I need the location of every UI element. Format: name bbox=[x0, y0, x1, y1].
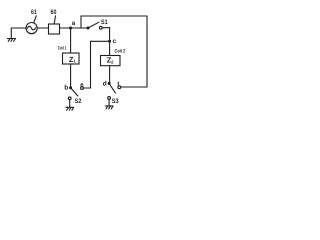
switch S2 arm bbox=[71, 88, 78, 96]
switch S3 ground contact bbox=[108, 97, 111, 100]
wire top edge left bbox=[81, 15, 147, 17]
svg-text:S3: S3 bbox=[112, 98, 119, 105]
switch S3 arm bbox=[109, 83, 115, 93]
wire node a down to coil 1 bbox=[70, 28, 72, 53]
svg-text:Coil 1: Coil 1 bbox=[58, 45, 67, 51]
wire S3 contact to ground bbox=[108, 99, 110, 105]
ground (below S3) bbox=[105, 106, 113, 109]
wire e to riser corner bbox=[83, 87, 90, 89]
leader line for label 61 bbox=[34, 16, 37, 23]
wire corner down to node c bbox=[109, 28, 111, 42]
svg-text:Coil 2: Coil 2 bbox=[115, 49, 126, 55]
svg-text:f: f bbox=[117, 81, 120, 88]
svg-text:d: d bbox=[103, 80, 107, 87]
svg-text:60: 60 bbox=[51, 9, 57, 16]
svg-text:a: a bbox=[72, 20, 76, 27]
wire right edge up bbox=[146, 16, 148, 87]
ground (left, below source wire) bbox=[7, 28, 15, 41]
box 60 bbox=[49, 24, 60, 34]
svg-text:b: b bbox=[64, 84, 68, 91]
wire ground to AC source bbox=[11, 27, 26, 29]
wire riser down to main wire bbox=[80, 16, 82, 28]
svg-text:c: c bbox=[113, 38, 117, 45]
wire node c down to coil 2 bbox=[109, 41, 111, 55]
svg-text:61: 61 bbox=[31, 9, 37, 16]
svg-text:Z1: Z1 bbox=[69, 55, 76, 64]
wire Z2 down to node d bbox=[109, 66, 111, 84]
contact f circle bbox=[118, 86, 121, 89]
wire f to right edge bbox=[121, 86, 147, 88]
AC source 61 bbox=[26, 23, 37, 34]
leader line for label 60 bbox=[54, 16, 55, 24]
wire box 60 to S1 pivot (node a net) bbox=[60, 27, 89, 29]
node b dot bbox=[69, 86, 72, 89]
wire S2 contact to ground bbox=[69, 100, 71, 107]
wire riser e up to node c level bbox=[90, 41, 92, 88]
node d dot bbox=[108, 82, 111, 85]
switch S1 pivot dot bbox=[87, 27, 90, 30]
wire source to box 60 bbox=[37, 27, 48, 29]
switch S2 ground contact bbox=[68, 97, 71, 100]
node c dot bbox=[108, 40, 111, 43]
wire to node c bbox=[91, 40, 110, 42]
svg-text:Z2: Z2 bbox=[107, 56, 114, 65]
wire Z1 down to node b bbox=[70, 64, 72, 88]
coil 1 box Z1 bbox=[63, 53, 80, 64]
switch S1 arm bbox=[88, 22, 99, 28]
svg-text:S2: S2 bbox=[75, 98, 82, 105]
wire S1 contact to corner bbox=[102, 27, 109, 29]
ground (below S2) bbox=[66, 107, 74, 110]
svg-text:S1: S1 bbox=[101, 19, 108, 26]
switch S1 contact circle bbox=[99, 26, 102, 29]
coil 2 box Z2 bbox=[101, 56, 121, 66]
node a junction dot bbox=[69, 27, 72, 30]
contact e circle bbox=[81, 87, 84, 90]
